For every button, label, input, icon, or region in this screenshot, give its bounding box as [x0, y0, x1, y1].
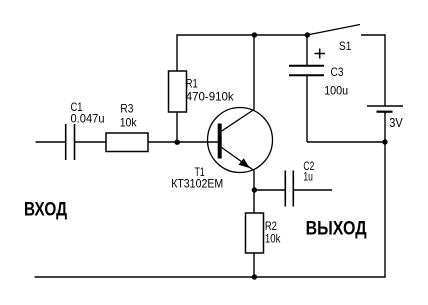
wire R1 bottom [176, 112, 178, 142]
transistor T1 emitter arrowhead [239, 158, 250, 168]
svg-text:ВХОД: ВХОД [24, 200, 67, 221]
switch S1 [307, 25, 360, 36]
svg-text:470-910k: 470-910k [186, 90, 235, 104]
capacitor C3 plates [289, 66, 324, 76]
transistor T1 base bar [218, 124, 222, 159]
wire collector vertical [253, 35, 255, 110]
wire emitter to C2 [254, 189, 285, 191]
junction node: R1 / base wire [175, 140, 180, 145]
wire C3 top [306, 35, 308, 66]
junction node: R2 / bottom rail [252, 274, 257, 279]
capacitor C2 plates [285, 171, 293, 207]
resistor R1 body [169, 71, 187, 112]
transistor T1 collector diagonal [222, 110, 254, 132]
svg-text:ВЫХОД: ВЫХОД [306, 218, 367, 239]
wire right vertical upper [384, 34, 386, 106]
wire R2 top [253, 190, 255, 213]
capacitor C1 plates [66, 124, 75, 160]
junction node: emitter / C2 / R2 [252, 187, 257, 192]
resistor R2 body [246, 213, 264, 253]
wire right vertical lower [384, 112, 386, 277]
svg-text:R3: R3 [120, 101, 133, 115]
wire R3 to base [148, 141, 218, 143]
battery B1 3V short plate [377, 111, 393, 113]
wire R2 bottom [253, 253, 255, 277]
svg-text:КТ3102ЕМ: КТ3102ЕМ [171, 176, 223, 190]
svg-text:3V: 3V [389, 116, 403, 130]
junction node: battery / C3 return [382, 139, 387, 144]
svg-text:R1: R1 [186, 77, 198, 91]
svg-text:10k: 10k [265, 232, 281, 246]
svg-text:1u: 1u [303, 169, 313, 183]
wire bottom rail [35, 276, 386, 278]
wire R1 top [176, 34, 178, 71]
wire C2 to output [294, 189, 332, 191]
wire C3 bottom vertical [306, 76, 308, 143]
resistor R3 body [106, 133, 148, 152]
svg-text:C3: C3 [331, 65, 344, 79]
junction node: collector / top rail [252, 32, 257, 37]
svg-text:S1: S1 [339, 39, 352, 53]
svg-text:0.047u: 0.047u [71, 112, 105, 126]
transistor T1 circle [208, 108, 273, 173]
wire input left [36, 141, 66, 143]
wire top rail [177, 34, 307, 36]
polarity plus sign [315, 49, 326, 59]
wire emitter vertical [253, 171, 255, 191]
junction node: C3 / switch / top rail [305, 32, 310, 37]
svg-text:100u: 100u [324, 83, 348, 97]
wire switch to top-right corner [361, 34, 385, 36]
wire C3 to battery node [307, 141, 385, 143]
svg-text:10k: 10k [120, 116, 138, 130]
wire C1 to R3 [75, 141, 106, 143]
battery B1 3V long plate [367, 105, 403, 107]
transistor T1 emitter diagonal [222, 148, 254, 171]
